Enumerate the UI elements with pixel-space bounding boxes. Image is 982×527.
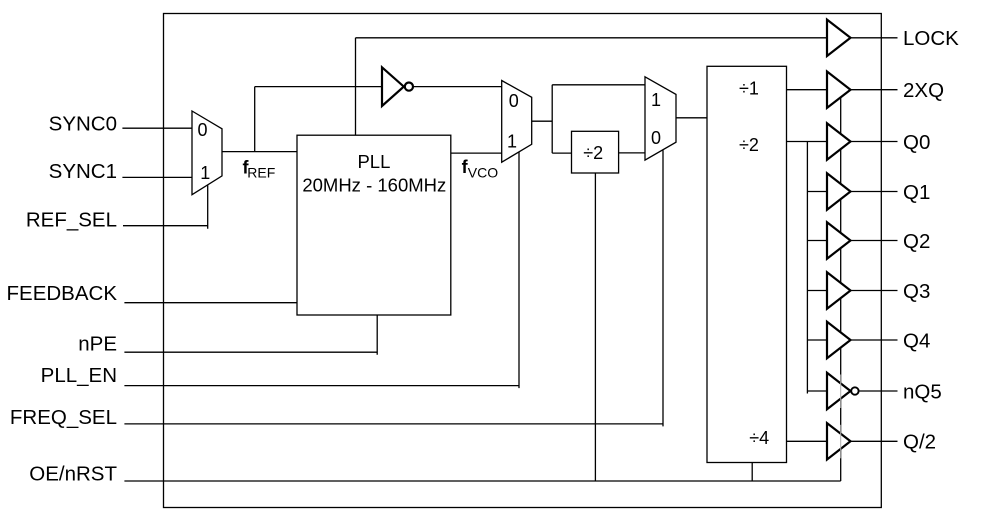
mux U3 FREQ_SEL multiplexer <box>645 77 676 160</box>
wire enable line seen through Q/2 buffer <box>840 425 842 459</box>
svg-text:20MHz - 160MHz: 20MHz - 160MHz <box>302 175 446 196</box>
wire divide-by-2 bottom to OE line <box>594 173 596 481</box>
buffer 2XQ <box>827 72 851 108</box>
PLL block <box>297 135 451 315</box>
mux U1 REF_SEL multiplexer <box>192 111 222 195</box>
svg-text:0: 0 <box>197 120 207 140</box>
wire Q3 output stub <box>851 290 898 292</box>
wire to mux U3 input 1 <box>552 84 645 86</box>
wire Q4 output stub <box>851 339 898 341</box>
svg-text:REF_SEL: REF_SEL <box>26 208 117 231</box>
svg-text:nPE: nPE <box>78 333 117 356</box>
svg-text:0: 0 <box>509 91 519 111</box>
outer device boundary box <box>164 14 882 508</box>
buffer Q4 <box>827 322 851 358</box>
wire to divide-by-2 input <box>552 152 571 154</box>
wire enable line seen through nQ5 buffer <box>840 375 842 409</box>
wire divider /4 out to Q/2 buffer <box>787 440 829 442</box>
buffer Q1 <box>827 173 851 209</box>
svg-text:÷1: ÷1 <box>739 79 759 99</box>
wire fVCO PLL to mux U2 input 1 <box>451 152 502 154</box>
buffer Q/2 <box>827 423 851 459</box>
svg-text:SYNC0: SYNC0 <box>49 113 117 136</box>
svg-text:Q3: Q3 <box>903 280 930 303</box>
wire divider bottom to OE line <box>751 463 753 482</box>
svg-text:nQ5: nQ5 <box>903 380 942 403</box>
wire branch vertical feeding Q1-nQ5 <box>806 142 808 394</box>
svg-text:SYNC1: SYNC1 <box>49 160 117 183</box>
svg-text:Q1: Q1 <box>903 181 930 204</box>
wire OE/nRST input <box>124 480 840 482</box>
svg-text:Q4: Q4 <box>903 329 930 352</box>
buffer Q0 <box>827 123 851 159</box>
wire stub Q1 <box>807 191 828 193</box>
wire SYNC1 input <box>122 176 192 178</box>
svg-text:1: 1 <box>200 163 210 183</box>
svg-text:1: 1 <box>651 90 661 110</box>
wire mux U2 output <box>532 85 553 153</box>
wire Q2 output stub <box>851 240 898 242</box>
wire stub Q3 <box>807 290 828 292</box>
svg-text:VCO: VCO <box>468 165 498 181</box>
wire stub Q2 <box>807 240 828 242</box>
wire nQ5 output stub <box>859 390 898 392</box>
wire REF_SEL input <box>123 185 208 229</box>
wire Q0 output stub <box>851 141 898 143</box>
svg-text:÷4: ÷4 <box>749 428 769 448</box>
wire mux U1 output fREF to PLL <box>222 151 297 153</box>
wire nPE input <box>124 315 377 355</box>
buffer Q3 <box>827 272 851 308</box>
wire mux U3 output to divider block <box>676 117 707 119</box>
wire node fREF up to inverter <box>255 87 382 152</box>
mux U2 PLL_EN multiplexer <box>502 81 532 163</box>
wire inverter output to mux U2 input 0 <box>413 86 502 88</box>
wire SYNC0 input <box>122 127 192 129</box>
svg-text:Q2: Q2 <box>903 230 930 253</box>
divide-by-2 block <box>572 131 619 173</box>
wire Q/2 output stub <box>851 440 898 442</box>
svg-text:FEEDBACK: FEEDBACK <box>7 282 118 305</box>
wire Q1 output stub <box>851 191 898 193</box>
svg-text:÷2: ÷2 <box>739 135 759 155</box>
wire divider /2 out to Q0 buffer <box>787 141 829 143</box>
buffer Q2 <box>827 222 851 258</box>
wire stub Q4 <box>807 339 828 341</box>
wire divider /1 out to 2XQ buffer <box>787 89 829 91</box>
svg-text:OE/nRST: OE/nRST <box>29 462 117 485</box>
buffer LOCK <box>827 20 851 56</box>
wire PLL lock out vertical <box>356 38 829 135</box>
svg-text:LOCK: LOCK <box>903 27 959 50</box>
svg-text:Q0: Q0 <box>903 131 930 154</box>
output divider block /1 /2 /4 <box>707 66 787 462</box>
svg-text:PLL_EN: PLL_EN <box>41 364 117 387</box>
wire 2XQ output stub <box>851 89 898 91</box>
buffer nQ5 inverting <box>827 373 851 409</box>
svg-text:0: 0 <box>651 128 661 148</box>
svg-text:1: 1 <box>507 132 517 152</box>
wire output-enable vertical behind buffers <box>840 98 842 482</box>
svg-text:Q/2: Q/2 <box>903 431 936 454</box>
wire LOCK output stub <box>851 37 898 39</box>
inverter U4 feedback <box>382 67 404 106</box>
wire FEEDBACK input <box>124 302 297 304</box>
svg-text:PLL: PLL <box>357 151 390 172</box>
wire PLL_EN input <box>124 152 519 388</box>
wire FREQ_SEL input <box>124 150 663 426</box>
wire stub nQ5 <box>807 390 828 392</box>
svg-text:REF: REF <box>247 165 275 181</box>
svg-text:FREQ_SEL: FREQ_SEL <box>10 406 117 429</box>
svg-text:÷2: ÷2 <box>583 143 603 163</box>
wire divide-by-2 output to mux U3 input 0 <box>619 152 645 154</box>
svg-text:2XQ: 2XQ <box>903 79 944 102</box>
